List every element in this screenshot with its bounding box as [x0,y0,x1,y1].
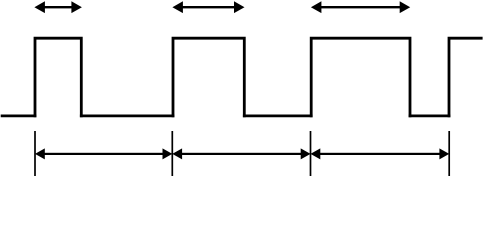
wire: baseline low segment C (between pulse 2 and pulse 3) [243,115,313,118]
period arrow P2 (double-headed, tick T2 to tick T3) [172,148,310,159]
pulse-width arrow W1 (double-headed, above pulse 1) [34,1,82,13]
pulse 2 (rising edge, top, falling edge) [173,38,244,117]
pulse 3 (rising edge, top, falling edge) [311,38,410,117]
pulse-width arrow W3 (double-headed, above pulse 3) [311,1,410,13]
period boundary tick T3 [310,131,312,176]
pulse-width arrow W2 (double-headed, above pulse 2) [172,1,244,13]
period boundary tick T4 [448,131,450,176]
period boundary tick T2 [171,131,173,176]
period arrow P3 (double-headed, tick T3 to tick T4) [311,148,450,159]
wire: baseline low segment D (between pulse 3 and pulse 4) [409,115,451,118]
period boundary tick T1 [34,131,36,176]
pulse 4 (partial: rising edge and top to right edge) [449,38,483,117]
period arrow P1 (double-headed, tick T1 to tick T2) [35,148,172,159]
pulse 1 (rising edge, top, falling edge) [35,38,81,117]
wire: baseline low segment A (left edge to pulse 1) [1,115,37,118]
wire: baseline low segment B (between pulse 1 and pulse 2) [80,115,174,118]
